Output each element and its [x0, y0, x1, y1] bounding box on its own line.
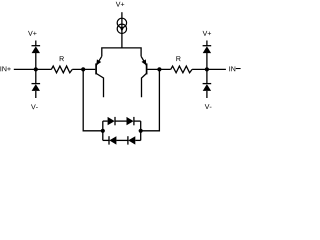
transistor Q2 PNP right — [141, 56, 147, 97]
node N6 network right — [139, 129, 143, 133]
diode D7 bottom-left — [109, 136, 116, 144]
diode D2 V- to IN+ — [32, 69, 41, 98]
R label left — [60, 56, 64, 61]
V- label right — [205, 104, 212, 109]
R label right — [176, 56, 180, 61]
V- label left — [31, 104, 38, 109]
diode D1 IN+ to V+ — [32, 41, 41, 70]
V+ label left — [28, 31, 36, 36]
resistor R left — [51, 66, 72, 73]
node N1 IN+ clamp junction — [34, 67, 38, 71]
current source I1 — [117, 18, 126, 33]
IN- label — [229, 66, 240, 71]
wire clamp network frame — [103, 121, 141, 140]
diode D4 V- to IN- — [203, 69, 212, 98]
wire Q2 base to resistor R right — [147, 68, 170, 70]
transistor Q1 PNP left — [96, 56, 103, 97]
wire V+ to current source to rail — [121, 12, 123, 48]
node N4 IN- clamp junction — [205, 67, 209, 71]
wire resistor R left to Q1 base — [72, 68, 95, 70]
node N2 left base junction — [81, 67, 85, 71]
node N5 network left — [101, 129, 105, 133]
diode D8 bottom-right — [128, 136, 135, 144]
wire IN+ to resistor R left — [14, 68, 52, 70]
diode D6 top-right — [127, 117, 134, 125]
node N3 right base junction — [157, 67, 161, 71]
wire N2 down to clamp network — [83, 69, 103, 130]
V+ label top — [116, 2, 124, 7]
diode D5 top-left — [108, 117, 115, 125]
IN+ label — [0, 66, 10, 71]
resistor R right — [171, 66, 192, 73]
wire resistor R right to IN- — [192, 68, 226, 70]
V+ label right — [203, 31, 211, 36]
wire emitter rail — [102, 48, 141, 56]
diode D3 IN- to V+ — [203, 41, 212, 70]
wire N3 down to clamp network — [141, 69, 160, 130]
